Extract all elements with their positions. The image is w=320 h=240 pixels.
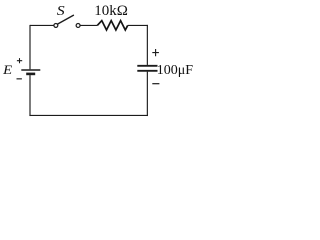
capacitor C top plate	[137, 65, 157, 67]
capacitor plus sign	[152, 49, 159, 56]
battery plus sign	[17, 58, 22, 63]
svg-text:S: S	[57, 4, 66, 19]
battery minus sign	[17, 78, 22, 80]
switch S contact right	[76, 24, 80, 28]
resistor R 10k zigzag	[97, 21, 127, 30]
switch S contact left	[54, 23, 58, 27]
wire left lower: bottom corner up to battery	[29, 75, 31, 116]
capacitor minus sign	[152, 83, 159, 85]
svg-text:100μF: 100μF	[157, 63, 194, 78]
switch S blade	[58, 15, 74, 24]
wire bottom	[29, 114, 147, 116]
battery E short plate (-)	[26, 73, 35, 76]
capacitor C bottom plate	[137, 70, 157, 72]
wire left upper: battery up to top corner	[29, 25, 31, 69]
svg-text:E: E	[2, 64, 13, 78]
wire top-left: corner to switch left contact	[30, 24, 54, 26]
wire top-right: resistor to right corner	[128, 24, 148, 26]
svg-text:10kΩ: 10kΩ	[94, 3, 128, 19]
wire right lower: capacitor to bottom corner	[146, 72, 148, 116]
wire right: down to capacitor	[146, 25, 148, 65]
battery E long plate (+)	[21, 69, 40, 71]
wire top-middle: switch right contact to resistor	[80, 24, 97, 26]
